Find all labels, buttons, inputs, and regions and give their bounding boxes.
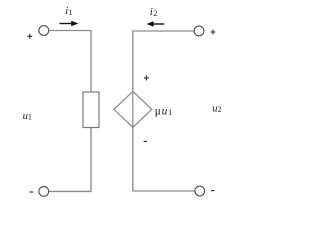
wire top-left horizontal and down to resistor: [48, 31, 91, 93]
svg-text:u1: u1: [23, 111, 32, 122]
polarity - below dependent source: [144, 140, 147, 142]
current arrow i1: [60, 21, 79, 27]
resistor (left branch): [83, 92, 99, 128]
polarity + at port 2 top: [211, 30, 216, 35]
wire dependent source to bottom-right terminal: [133, 127, 195, 191]
wire top-right horizontal and down to dependent source: [133, 31, 195, 91]
terminal port 2 top: [194, 26, 204, 36]
terminal port 1 top: [39, 26, 49, 36]
svg-text:i2: i2: [150, 6, 158, 18]
polarity + at port 1 top: [27, 34, 32, 39]
terminal port 2 bottom: [195, 186, 205, 196]
dependent source U (diamond): [114, 91, 152, 127]
polarity - at port 2 bottom: [211, 190, 215, 192]
svg-text:μu1: μu1: [155, 105, 173, 117]
wire resistor to bottom-left terminal: [48, 128, 91, 192]
polarity - at port 1 bottom: [30, 191, 34, 193]
polarity + above dependent source: [144, 75, 149, 80]
svg-text:u2: u2: [212, 103, 221, 114]
terminal port 1 bottom: [39, 187, 49, 197]
current arrow i2: [146, 21, 164, 27]
wire through dependent source: [132, 91, 134, 127]
svg-text:i1: i1: [65, 6, 73, 17]
